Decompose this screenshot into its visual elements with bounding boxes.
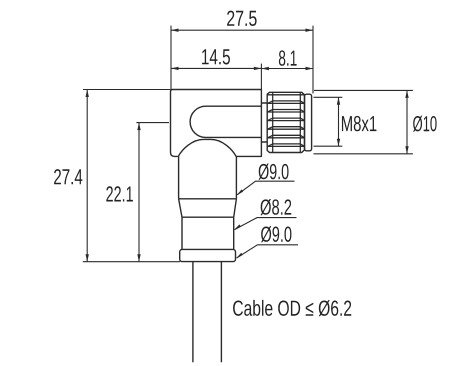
extension line 27.4 top xyxy=(83,89,171,91)
smooth ring / thread stub M8 xyxy=(305,94,312,151)
label Ø9.0 upper xyxy=(259,164,289,180)
dimension line M8x1 xyxy=(338,97,340,146)
arrows M8x1 xyxy=(337,97,340,105)
leader Ø9.0 lower xyxy=(237,245,298,258)
label Ø8.2 xyxy=(261,199,292,215)
leader Ø9.0 upper xyxy=(237,181,294,195)
label Ø9.0 lower xyxy=(261,226,291,242)
extension line middle (14.5 / 8.1 boundary) xyxy=(260,64,262,90)
dimension line 8.1 xyxy=(261,68,313,70)
Ø9.0 lower ring xyxy=(180,249,236,261)
cable xyxy=(193,262,222,363)
label 8.1 xyxy=(279,50,297,65)
arrows 14.5 xyxy=(171,67,179,70)
leader Ø8.2 xyxy=(235,218,297,230)
arrows Ø10 xyxy=(405,90,408,98)
label M8x1 xyxy=(342,116,377,131)
extension lines M8x1 xyxy=(314,97,343,146)
extension line left (27.5) xyxy=(170,26,172,89)
dimension line Ø10 xyxy=(406,90,408,153)
internal U contour xyxy=(190,106,261,137)
extension line 22.1 top (axis) xyxy=(136,122,169,124)
extension line right tip (27.5 / 8.1) xyxy=(312,26,314,94)
arrows 27.4 xyxy=(86,90,89,98)
dimension line 27.4 xyxy=(86,90,88,262)
label Ø10 xyxy=(413,116,437,132)
arrows 22.1 xyxy=(137,123,140,131)
label 14.5 xyxy=(202,49,230,64)
label 27.4 xyxy=(54,169,82,184)
extension lines Ø10 xyxy=(314,90,413,153)
dimension line 14.5 xyxy=(171,67,261,69)
arrows 8.1 xyxy=(261,67,269,70)
dome transition body to cylinder xyxy=(178,139,236,156)
knurl ridges xyxy=(268,95,305,147)
neck stubs between body and nut xyxy=(261,103,267,142)
knurled nut silhouette xyxy=(267,92,304,152)
taper to Ø8.2 xyxy=(179,199,237,217)
body (right-angle housing) xyxy=(171,90,262,157)
label Cable OD ≤ Ø6.2 xyxy=(233,300,351,316)
leader arrows xyxy=(237,189,244,195)
extension line bottom (27.4/22.1) xyxy=(83,261,180,263)
label 27.5 xyxy=(227,11,257,26)
knurl chamfer verticals xyxy=(273,92,301,152)
Ø8.2 section xyxy=(182,217,234,249)
label 22.1 xyxy=(106,186,133,201)
arrows 27.5 xyxy=(171,29,179,32)
vertical cylinder (Ø9.0 upper) xyxy=(179,156,237,198)
dimension line 22.1 xyxy=(138,123,140,262)
dimension line 27.5 xyxy=(171,29,313,31)
